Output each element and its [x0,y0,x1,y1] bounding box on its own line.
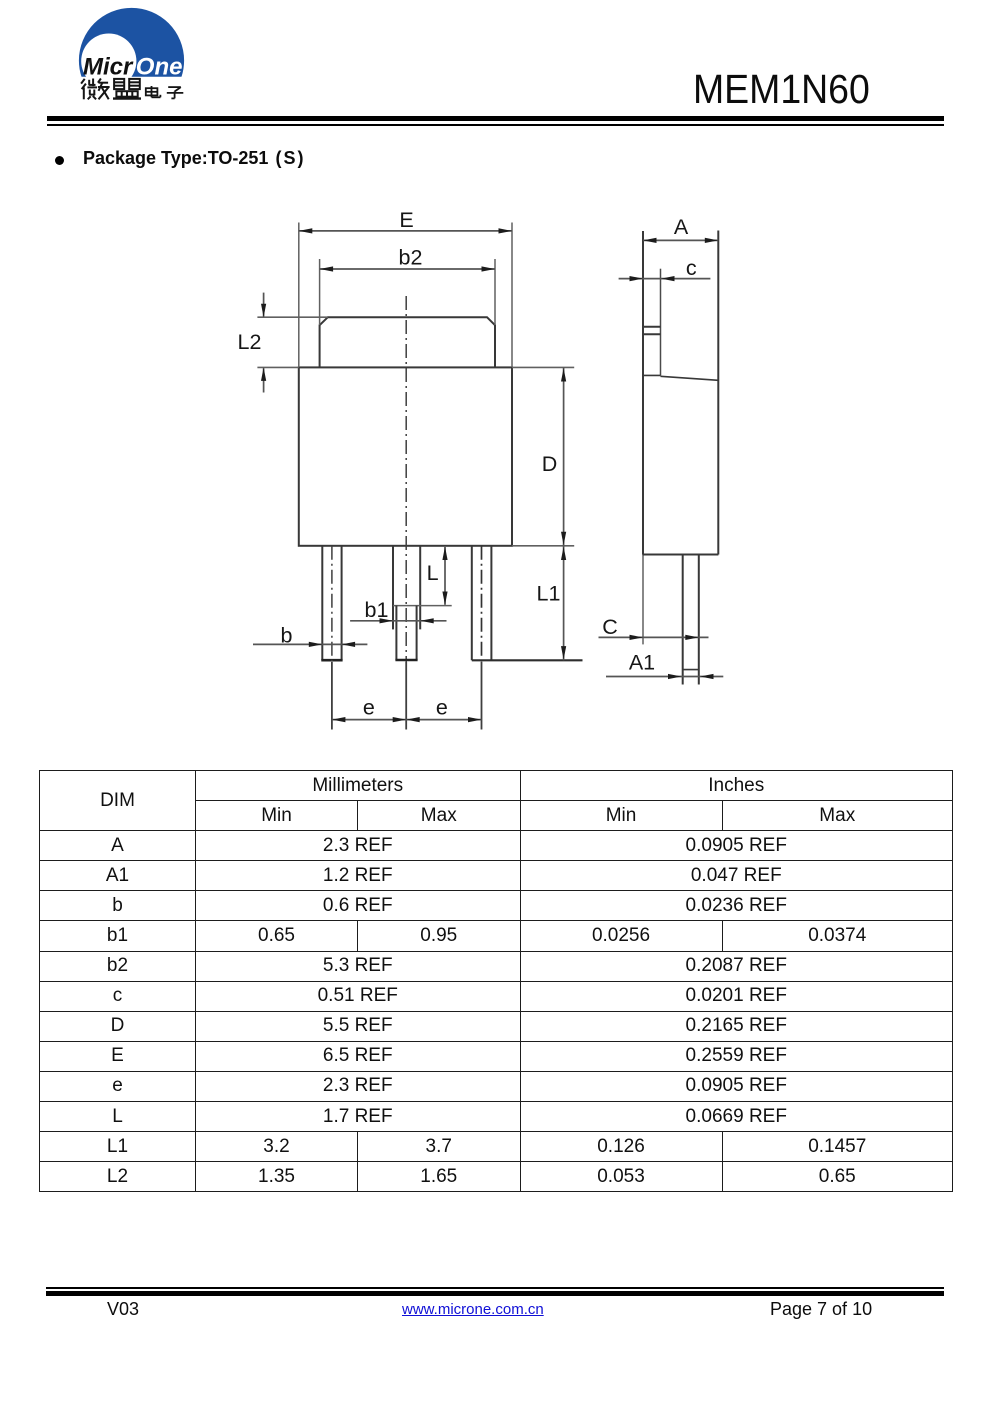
dimension b2: dimension line with arrows and label b2 [320,246,495,272]
svg-text:A: A [674,215,689,239]
svg-text:E: E [399,208,413,232]
front view middle lead narrow tip (b1) [395,606,417,660]
footer double rule [46,1287,944,1289]
svg-text:b1: b1 [365,598,389,622]
front view package body outline [299,367,512,545]
dimension E: dimension line with arrows and label E [299,208,512,234]
body bottom edge extension line (right, for D/L1) [512,545,574,547]
MicrOne logo [0,0,260,110]
header double rule [47,116,944,121]
logo hanzi 微 [81,79,110,100]
part number title MEM1N60 [693,66,870,113]
dimension L1: vertical dimension line with arrows and label L1 [537,546,567,661]
svg-text:e: e [436,696,448,720]
side view tab bottom edge [643,374,661,376]
MicrOne logo blue dome [79,8,184,89]
side view tab notch detail lines [643,327,661,335]
dimension b: dimension line with outside arrows and label b [253,624,367,648]
svg-text:L2: L2 [238,330,262,354]
dimension L: vertical dimension line with arrows and label L [427,547,448,606]
dimension b1: dimension line with outside arrows and label b1 [350,598,446,623]
front view left lead (pin 1) [321,546,342,730]
dimension A: dimension line with arrows and label A [643,215,718,243]
svg-text:L1: L1 [537,582,561,606]
dimension D: vertical dimension line with arrows and label D [542,367,566,545]
dimension L2: outside arrows and label L2 [238,293,267,393]
side view body bottom edge [643,554,719,556]
footer link [402,1301,544,1318]
front view right lead (pin 3) [472,546,492,730]
MicrOne logo wordmark [83,54,182,81]
svg-text:D: D [542,452,558,476]
svg-text:L: L [427,561,439,585]
front view mounting tab outline (b2 wide) [320,317,495,367]
svg-text:e: e [363,696,375,720]
dimension C: dimension line with arrows and label C [599,615,709,640]
side view body right edge [717,231,719,555]
footer page number [770,1299,872,1320]
dimension c: dimension line with arrows and label c [619,256,711,281]
side view tab back edge line [660,269,662,376]
dimension table [39,770,953,1192]
svg-text:A1: A1 [629,651,655,675]
side view body left edge / extension line [642,231,644,644]
side view lead profile [683,555,699,685]
bullet [55,156,64,165]
svg-text:c: c [686,256,697,280]
logo hanzi 电 [146,86,161,97]
svg-text:b2: b2 [399,246,423,270]
lead-bottom extension line for L1 [472,659,583,661]
package vertical center line (dash-dot) [405,296,407,730]
svg-text:b: b [281,624,293,648]
side view mold parting slant line [661,376,719,380]
dimension A1: dimension line with arrows and label A1 [606,651,723,680]
body top edge extension lines (left for L2, right for D) [257,366,574,368]
dimension b2: extension lines [320,259,495,325]
logo hanzi 盟 [113,79,141,99]
section heading: Package Type [83,148,303,169]
front view middle lead (pin 2) wide section [393,546,452,630]
footer revision [107,1299,139,1320]
tab top edge extension line (left, for L2) [257,316,327,318]
package outline drawing [0,0,991,780]
svg-text:C: C [602,615,618,639]
dimension e: dimension line, center arrows and labels e e [332,696,482,723]
dimension E: extension lines [299,223,512,368]
logo hanzi 子 [167,87,184,98]
